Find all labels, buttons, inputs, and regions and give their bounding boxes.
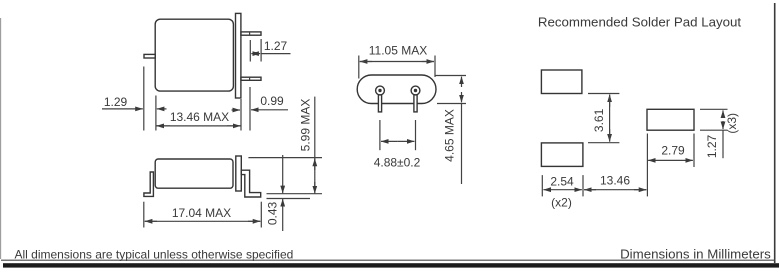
4.65 top ext line xyxy=(435,75,466,77)
flange-right ext line xyxy=(240,99,242,131)
right border xyxy=(774,3,776,263)
right bent lead xyxy=(241,170,260,197)
left border xyxy=(0,18,2,259)
dim 4.88 ext lines xyxy=(379,120,381,150)
4.65 bottom ext line xyxy=(437,103,466,105)
right wire xyxy=(414,95,417,112)
dim 1.27(pad) ext lines xyxy=(700,108,728,110)
svg-text:0.99: 0.99 xyxy=(260,94,284,108)
seating ext line xyxy=(267,193,323,195)
dim 11.05 ext lines xyxy=(358,56,360,79)
svg-text:All dimensions are typical unl: All dimensions are typical unless otherw… xyxy=(15,248,294,262)
dim 0.43 upper arrow xyxy=(282,155,284,193)
svg-text:4.88±0.2: 4.88±0.2 xyxy=(374,156,421,170)
top lead tick xyxy=(249,32,251,35)
pad 3 (right) xyxy=(647,109,694,130)
right pin dot xyxy=(414,89,417,92)
dim 1.27 ext lines xyxy=(249,40,251,62)
dim 11.05 line xyxy=(360,61,372,63)
crystal body (smd view) xyxy=(155,159,233,188)
svg-text:3.61: 3.61 xyxy=(592,108,606,132)
top ext line (5.99) xyxy=(248,157,322,159)
svg-text:2.54: 2.54 xyxy=(550,174,574,188)
dim 13.46(pad) line xyxy=(584,189,596,191)
footer thin rule xyxy=(1,259,776,261)
right pin circle xyxy=(411,86,420,95)
bottom lead xyxy=(241,77,261,80)
dim 5.99 MAX line w/ tail xyxy=(314,97,316,190)
bottom lead tick xyxy=(249,77,251,80)
svg-text:0.43: 0.43 xyxy=(265,201,279,225)
dim 2.79 line xyxy=(648,159,670,161)
dim 17.04 ext lines xyxy=(143,202,145,228)
svg-text:17.04 MAX: 17.04 MAX xyxy=(172,206,231,220)
dim 0.99 arrows xyxy=(232,109,241,111)
svg-text:Recommended Solder Pad Layout: Recommended Solder Pad Layout xyxy=(538,14,742,29)
footer black bar xyxy=(3,263,779,267)
svg-text:4.65 MAX: 4.65 MAX xyxy=(443,109,457,162)
dim 3.61 line xyxy=(609,95,611,107)
dim 1.27(pad) line w/ tail xyxy=(722,130,724,158)
mounting flange xyxy=(236,13,241,98)
crystal body (side view) xyxy=(155,19,233,91)
dim 1.27 arrows xyxy=(251,53,255,55)
dim 17.04 line xyxy=(145,220,157,222)
left pin circle xyxy=(376,86,385,95)
dim 1.29 ext line xyxy=(143,67,145,131)
svg-text:1.27: 1.27 xyxy=(705,134,719,158)
dim 2.54 ext lines xyxy=(541,175,543,196)
svg-text:2.79: 2.79 xyxy=(661,143,685,157)
dim 1.29 arrows xyxy=(102,108,143,110)
dim 2.79 ext line right xyxy=(693,134,695,168)
body-left ext line xyxy=(155,96,157,131)
left bent lead xyxy=(144,172,154,196)
svg-text:(x2): (x2) xyxy=(551,196,572,210)
svg-text:5.99 MAX: 5.99 MAX xyxy=(299,99,313,152)
pad 1 (top-left) xyxy=(541,70,582,94)
left wire xyxy=(378,95,381,112)
foot-bottom ext line xyxy=(267,198,311,200)
svg-text:1.29: 1.29 xyxy=(104,95,128,109)
dim 2.54 line xyxy=(543,189,562,191)
pad 2 (bottom-left) xyxy=(541,143,583,167)
dim 0.43 lower arrow xyxy=(282,199,284,231)
left pin dot xyxy=(378,89,381,92)
dim 13.46 MAX line xyxy=(156,125,241,127)
flange (smd) xyxy=(236,156,242,191)
dim 4.88 line xyxy=(381,140,398,142)
svg-text:13.46: 13.46 xyxy=(600,173,630,187)
dim 0.99 ext line xyxy=(249,87,251,131)
left stub lead xyxy=(144,54,155,58)
capsule body xyxy=(357,75,436,104)
dim 3.61 ext lines xyxy=(588,93,619,95)
svg-text:1.27: 1.27 xyxy=(264,39,288,53)
shared ext line pad3-left xyxy=(646,134,648,197)
dim 4.65 line w/ tail xyxy=(461,104,463,185)
svg-text:11.05 MAX: 11.05 MAX xyxy=(369,44,427,58)
svg-text:13.46 MAX: 13.46 MAX xyxy=(170,110,229,124)
dim 1.27 tail xyxy=(261,53,290,55)
svg-text:Dimensions in Millimeters: Dimensions in Millimeters xyxy=(620,246,771,261)
top lead xyxy=(241,32,261,35)
svg-text:(x3): (x3) xyxy=(725,113,739,134)
